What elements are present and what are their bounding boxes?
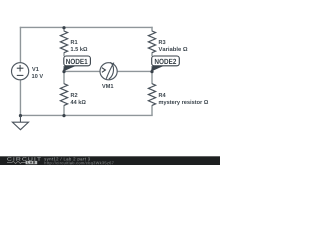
footer circuit title xyxy=(44,157,90,161)
resistor R3 xyxy=(148,31,155,53)
node flag NODE1 xyxy=(63,66,76,72)
value label 1.5 kOhm xyxy=(71,47,87,51)
wire left branch upper segment xyxy=(19,27,21,63)
wire R4 leads xyxy=(151,66,153,84)
junction dot NODE1 tee xyxy=(62,70,65,73)
footer bar xyxy=(0,156,220,165)
junction dot bottom of R2 branch xyxy=(62,114,65,117)
resistor R4 xyxy=(148,84,155,106)
wire left branch lower segment xyxy=(19,80,21,116)
wire bottom rail xyxy=(20,114,153,116)
voltage source V1 xyxy=(12,63,29,80)
resistor R1 xyxy=(60,31,67,53)
footer url xyxy=(44,161,113,165)
wire top rail xyxy=(20,26,153,28)
value label 10 V xyxy=(32,74,43,78)
label VM1 xyxy=(102,84,113,88)
junction dot NODE2 tee xyxy=(150,70,153,73)
value label 44 kOhm xyxy=(71,100,86,104)
junction dot top of R1 branch xyxy=(62,26,65,29)
label R2 xyxy=(71,93,78,97)
value label Variable Ohm xyxy=(158,47,187,51)
label V1 xyxy=(32,67,39,71)
wire R2 leads xyxy=(63,66,65,84)
label R3 xyxy=(159,40,166,44)
value label mystery resistor Ohm xyxy=(159,100,208,105)
footer logo waveform xyxy=(7,161,26,163)
footer logo LAB tag xyxy=(26,161,38,164)
footer logo CIRCUIT xyxy=(7,157,41,161)
ground xyxy=(19,115,21,122)
wire middle horizontal NODE1 to VM1 xyxy=(64,70,100,72)
resistor R2 xyxy=(60,84,67,106)
node flag NODE2 xyxy=(151,66,164,72)
wire R1 leads xyxy=(63,27,65,32)
voltmeter VM1 xyxy=(100,63,117,80)
wire R3 leads xyxy=(151,27,153,32)
label R1 xyxy=(71,40,78,44)
label R4 xyxy=(159,93,166,97)
junction dot ground tee xyxy=(19,114,22,117)
wire middle horizontal VM1 to NODE2 xyxy=(117,70,152,72)
